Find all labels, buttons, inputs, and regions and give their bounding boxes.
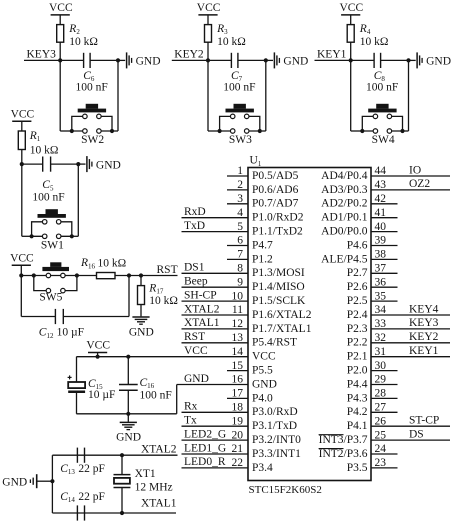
U1 pin 2 P0.6/AD6 stub bbox=[227, 189, 248, 191]
svg-text:P3.4: P3.4 bbox=[252, 462, 273, 474]
switch SW3 contact circles bbox=[230, 114, 235, 119]
svg-text:XTAL2: XTAL2 bbox=[141, 444, 177, 456]
svg-text:OZ2: OZ2 bbox=[409, 178, 430, 190]
junction node KEY3 bbox=[58, 58, 62, 62]
svg-text:P1.4/MISO: P1.4/MISO bbox=[252, 281, 305, 293]
junction C16 top bbox=[126, 355, 130, 359]
switch SW1 contact circles bbox=[42, 220, 47, 225]
svg-text:P1.1/TxD2: P1.1/TxD2 bbox=[252, 226, 303, 238]
svg-text:44: 44 bbox=[375, 165, 387, 177]
U1 pin 21 P3.3/INT1 wire/net LED1_G bbox=[182, 453, 249, 455]
svg-text:P1.3/MOSI: P1.3/MOSI bbox=[252, 267, 305, 279]
svg-text:SW1: SW1 bbox=[41, 240, 64, 252]
switch SW5 right contact bracket bbox=[63, 276, 77, 291]
U1 pin 7 P1.2 stub bbox=[227, 258, 248, 260]
svg-text:DS: DS bbox=[409, 428, 424, 440]
svg-text:RxD: RxD bbox=[184, 206, 206, 218]
svg-text:SW5: SW5 bbox=[39, 292, 62, 304]
U1 pin 25 INT3/P3.7 wire/net DS bbox=[371, 439, 450, 441]
ground GND (KEY1) bbox=[409, 59, 416, 61]
svg-text:31: 31 bbox=[375, 346, 387, 358]
wire VCC to R4 bbox=[350, 15, 352, 25]
svg-text:27: 27 bbox=[375, 402, 387, 414]
svg-text:10 kΩ: 10 kΩ bbox=[98, 258, 127, 270]
wire bottom right of SW2 bbox=[114, 130, 118, 132]
svg-text:Rx: Rx bbox=[184, 401, 198, 413]
wire R4 to node KEY1 bbox=[350, 42, 352, 60]
U1 pin 31 P2.1 wire/net KEY1 bbox=[371, 356, 450, 358]
wire VCC to RST rail bbox=[20, 265, 22, 275]
svg-text:XTAL1: XTAL1 bbox=[141, 497, 177, 509]
svg-text:VCC: VCC bbox=[197, 2, 221, 14]
wire XTAL2 net bbox=[52, 454, 177, 456]
svg-text:KEY2: KEY2 bbox=[174, 49, 204, 61]
svg-text:15: 15 bbox=[232, 360, 244, 372]
capacitor C16 bbox=[127, 357, 129, 385]
svg-text:P2.2: P2.2 bbox=[347, 337, 368, 349]
switch SW3 left contact bracket bbox=[220, 116, 233, 131]
wire KEY3 horizontal bbox=[24, 59, 84, 61]
svg-text:26: 26 bbox=[375, 415, 387, 427]
U1 pin 30 P2.0 stub bbox=[371, 370, 398, 372]
svg-text:100 nF: 100 nF bbox=[140, 390, 172, 402]
svg-text:P0.6/AD6: P0.6/AD6 bbox=[252, 184, 299, 196]
svg-text:SW2: SW2 bbox=[81, 134, 104, 146]
wire bottom left of SW1 bbox=[22, 235, 32, 237]
resistor R17 bbox=[138, 286, 145, 305]
U1 pin 32 P2.2 wire/net KEY2 bbox=[371, 342, 450, 344]
U1 pin 22 P3.4 wire/net LED0_R bbox=[182, 467, 249, 469]
svg-text:23: 23 bbox=[375, 457, 387, 469]
svg-text:21: 21 bbox=[232, 443, 244, 455]
U1 pin 27 P4.2 stub bbox=[371, 411, 398, 413]
switch SW1 button cap bbox=[38, 214, 66, 218]
svg-text:33: 33 bbox=[375, 318, 387, 330]
switch SW1 terminal junction dots bbox=[30, 234, 34, 238]
U1 pin 10 P1.5/SCLK wire/net SH-CP bbox=[182, 300, 249, 302]
ground GND (crystal) bbox=[37, 480, 53, 482]
svg-text:36: 36 bbox=[375, 276, 387, 288]
wire ground rail to IC pin 16 bbox=[176, 385, 178, 414]
svg-text:P2.0: P2.0 bbox=[347, 365, 368, 377]
svg-text:P3.0/RxD: P3.0/RxD bbox=[252, 406, 298, 418]
svg-text:KEY3: KEY3 bbox=[27, 49, 57, 61]
switch SW5 left contact bracket bbox=[34, 276, 49, 291]
svg-text:6: 6 bbox=[237, 235, 243, 247]
wire KEY1 horizontal bbox=[315, 59, 375, 61]
svg-text:GND: GND bbox=[96, 159, 121, 171]
svg-text:GND: GND bbox=[184, 373, 209, 385]
svg-text:P2.7: P2.7 bbox=[347, 267, 368, 279]
svg-text:P2.1: P2.1 bbox=[347, 351, 368, 363]
ground GND (R17) bbox=[140, 305, 142, 317]
switch SW4 contact circles bbox=[373, 114, 378, 119]
capacitor C15 polarized bbox=[76, 357, 78, 382]
svg-text:14: 14 bbox=[232, 346, 244, 358]
svg-text:3: 3 bbox=[237, 193, 243, 205]
svg-text:VCC: VCC bbox=[49, 2, 73, 14]
capacitor C6 bbox=[83, 53, 85, 68]
svg-text:RST: RST bbox=[157, 264, 178, 276]
svg-text:GND: GND bbox=[2, 476, 27, 488]
svg-text:AD4/P0.4: AD4/P0.4 bbox=[321, 170, 368, 182]
resistor R16 bbox=[97, 273, 116, 279]
svg-text:10 kΩ: 10 kΩ bbox=[217, 36, 246, 48]
wire RST rail bbox=[21, 275, 96, 277]
wire C6 to GND bbox=[90, 59, 118, 61]
wire VCC stem bbox=[97, 353, 99, 357]
wire left vertical XTAL bbox=[51, 455, 53, 513]
svg-text:17: 17 bbox=[232, 388, 244, 400]
junction node KEY2 bbox=[206, 58, 210, 62]
junction VCC bbox=[96, 355, 100, 359]
svg-text:41: 41 bbox=[375, 207, 387, 219]
U1 pin 41 AD1/P0.1 stub bbox=[371, 217, 398, 219]
svg-text:GND: GND bbox=[252, 378, 277, 390]
wire node to C5 bbox=[22, 163, 43, 165]
capacitor C7 bbox=[230, 53, 232, 68]
ground GND (KEY3) bbox=[118, 59, 125, 61]
svg-text:100 nF: 100 nF bbox=[223, 81, 255, 93]
svg-text:P1.0/RxD2: P1.0/RxD2 bbox=[252, 212, 304, 224]
wire left vertical to SW2 bbox=[59, 60, 61, 131]
svg-text:9: 9 bbox=[237, 276, 243, 288]
svg-text:10 kΩ: 10 kΩ bbox=[30, 145, 59, 157]
U1 pin 1 P0.5/AD5 stub bbox=[227, 175, 248, 177]
svg-text:22 pF: 22 pF bbox=[78, 491, 105, 503]
svg-text:AD0/P0.0: AD0/P0.0 bbox=[321, 226, 368, 238]
svg-text:SW4: SW4 bbox=[372, 134, 395, 146]
ground GND (SW1 node) bbox=[78, 163, 85, 165]
wire VCC to R2 bbox=[59, 15, 61, 25]
svg-text:TxD: TxD bbox=[184, 220, 205, 232]
svg-text:P4.4: P4.4 bbox=[347, 378, 368, 390]
switch SW4 left contact bracket bbox=[362, 116, 375, 131]
svg-text:22: 22 bbox=[232, 457, 244, 469]
svg-text:P4.6: P4.6 bbox=[347, 239, 368, 251]
svg-text:7: 7 bbox=[237, 249, 243, 261]
wire R17 top bbox=[140, 276, 142, 286]
U1 pin 29 P4.4 stub bbox=[371, 384, 398, 386]
wire bottom right of SW4 bbox=[404, 130, 408, 132]
svg-text:39: 39 bbox=[375, 235, 387, 247]
svg-text:P4.3: P4.3 bbox=[347, 392, 368, 404]
U1 pin 33 P2.3 wire/net KEY3 bbox=[371, 328, 450, 330]
svg-text:IO: IO bbox=[409, 164, 421, 176]
wire C7 to GND bbox=[238, 59, 266, 61]
svg-text:P4.0: P4.0 bbox=[252, 392, 273, 404]
U1 pin 12 P1.7/XTAL1 wire/net XTAL1 bbox=[182, 328, 249, 330]
switch SW2 left contact bracket bbox=[72, 116, 85, 131]
U1 pin 36 P2.6 stub bbox=[371, 286, 398, 288]
svg-text:10 kΩ: 10 kΩ bbox=[360, 36, 389, 48]
wire bottom left of SW2 bbox=[60, 130, 72, 132]
junction node KEY1 bbox=[349, 58, 353, 62]
U1 pin 9 P1.4/MISO wire/net Beep bbox=[182, 286, 249, 288]
svg-text:34: 34 bbox=[375, 304, 387, 316]
wire C12 left bbox=[21, 316, 55, 318]
svg-text:KEY4: KEY4 bbox=[409, 303, 439, 315]
svg-text:XT1: XT1 bbox=[135, 468, 156, 480]
svg-text:GND: GND bbox=[283, 56, 308, 68]
capacitor C14 bbox=[76, 505, 78, 520]
U1 pin 26 P4.1 wire/net ST-CP bbox=[371, 425, 450, 427]
U1 pin 4 P1.0/RxD2 wire/net RxD bbox=[182, 217, 249, 219]
wire bottom left of SW3 bbox=[208, 130, 220, 132]
svg-text:12 MHz: 12 MHz bbox=[135, 482, 173, 494]
svg-text:GND: GND bbox=[426, 56, 451, 68]
svg-text:29: 29 bbox=[375, 374, 387, 386]
wire right vertical to SW3 bbox=[265, 60, 267, 131]
wire right vertical to SW2 bbox=[117, 60, 119, 131]
junction R17 top bbox=[139, 273, 143, 277]
svg-text:P2.6: P2.6 bbox=[347, 281, 368, 293]
wire C5 to GND bbox=[51, 163, 79, 165]
svg-text:XTAL1: XTAL1 bbox=[184, 317, 220, 329]
wire R1 to node bbox=[21, 150, 23, 165]
svg-text:P1.7/XTAL1: P1.7/XTAL1 bbox=[252, 323, 312, 335]
wire right vertical to SW1 bbox=[77, 164, 79, 236]
capacitor C5 bbox=[42, 157, 44, 172]
U1 pin 16 GND wire/net GND bbox=[177, 384, 248, 386]
svg-text:AD3/P0.3: AD3/P0.3 bbox=[321, 184, 368, 196]
junction XT1 bottom bbox=[120, 511, 124, 515]
svg-text:8: 8 bbox=[237, 263, 243, 275]
svg-text:GND: GND bbox=[136, 56, 161, 68]
switch SW2 contact circles bbox=[83, 114, 88, 119]
U1 pin 38 ALE/P4.5 stub bbox=[371, 258, 398, 260]
wire left vertical to SW3 bbox=[207, 60, 209, 131]
svg-text:XTAL2: XTAL2 bbox=[184, 303, 220, 315]
resistor R4 bbox=[347, 25, 354, 43]
svg-text:35: 35 bbox=[375, 290, 387, 302]
svg-text:GND: GND bbox=[129, 326, 154, 338]
svg-text:AD1/P0.1: AD1/P0.1 bbox=[321, 212, 368, 224]
U1 pin 24 INT2/P3.6 stub bbox=[371, 453, 398, 455]
U1 pin 40 AD0/P0.0 stub bbox=[371, 231, 398, 233]
svg-text:P4.2: P4.2 bbox=[347, 406, 368, 418]
svg-text:100 nF: 100 nF bbox=[32, 192, 64, 204]
svg-text:16: 16 bbox=[232, 374, 244, 386]
svg-text:5: 5 bbox=[237, 221, 243, 233]
switch SW1 left contact bracket bbox=[32, 222, 45, 237]
wire ground rail bbox=[76, 413, 176, 415]
U1 pin 13 P5.4/RST wire/net RST bbox=[182, 342, 249, 344]
svg-text:1: 1 bbox=[237, 165, 243, 177]
U1 pin 35 P2.5 stub bbox=[371, 300, 398, 302]
switch SW5 terminal junction dots bbox=[32, 273, 36, 277]
U1 pin 44 AD4/P0.4 wire/net IO bbox=[371, 175, 450, 177]
ground GND (C15/C16) bbox=[127, 414, 129, 422]
junction bbox=[406, 58, 410, 62]
svg-text:P1.6/XTAL2: P1.6/XTAL2 bbox=[252, 309, 312, 321]
svg-text:P3.1/TxD: P3.1/TxD bbox=[252, 420, 297, 432]
svg-text:28: 28 bbox=[375, 388, 387, 400]
svg-text:INT3/P3.7: INT3/P3.7 bbox=[319, 434, 368, 446]
U1 pin 6 P4.7 stub bbox=[227, 245, 248, 247]
junction crystal GND bbox=[50, 479, 54, 483]
svg-text:32: 32 bbox=[375, 332, 387, 344]
svg-text:VCC: VCC bbox=[252, 351, 276, 363]
svg-text:VCC: VCC bbox=[10, 252, 34, 264]
svg-text:P5.4/RST: P5.4/RST bbox=[252, 337, 297, 349]
svg-text:10 µF: 10 µF bbox=[88, 389, 115, 401]
switch SW4 right contact bracket bbox=[389, 116, 402, 131]
switch SW2 terminal junction dots bbox=[70, 129, 74, 133]
svg-text:P0.7/AD7: P0.7/AD7 bbox=[252, 198, 299, 210]
U1 pin 23 P3.5 stub bbox=[371, 467, 398, 469]
svg-text:13: 13 bbox=[232, 332, 244, 344]
svg-text:37: 37 bbox=[375, 263, 387, 275]
U1 pin 8 P1.3/MOSI wire/net DS1 bbox=[182, 272, 249, 274]
crystal XT1 bbox=[121, 455, 123, 474]
svg-text:19: 19 bbox=[232, 415, 244, 427]
wire left vertical to SW4 bbox=[350, 60, 352, 131]
svg-text:10 µF: 10 µF bbox=[57, 327, 84, 339]
junction VCC / C12 bbox=[19, 273, 23, 277]
capacitor C8 bbox=[373, 53, 375, 68]
junction C12 leg bbox=[127, 273, 131, 277]
switch SW2 button cap bbox=[78, 109, 106, 113]
resistor R1 bbox=[18, 131, 25, 150]
svg-text:VCC: VCC bbox=[86, 340, 110, 352]
U1 pin 3 P0.7/AD7 stub bbox=[227, 203, 248, 205]
svg-text:42: 42 bbox=[375, 193, 387, 205]
svg-text:100 nF: 100 nF bbox=[366, 81, 398, 93]
wire C12 right bbox=[63, 316, 129, 318]
U1 pin 42 AD2/P0.2 stub bbox=[371, 203, 398, 205]
switch SW5 contact circles bbox=[46, 273, 51, 278]
wire bottom right of SW3 bbox=[262, 130, 266, 132]
wire C8 to GND bbox=[381, 59, 409, 61]
svg-text:12: 12 bbox=[232, 318, 244, 330]
wire right vertical to SW4 bbox=[408, 60, 410, 131]
junction XT1 top bbox=[120, 453, 124, 457]
svg-text:ST-CP: ST-CP bbox=[409, 415, 439, 427]
svg-text:P5.5: P5.5 bbox=[252, 365, 273, 377]
wire bottom right of SW1 bbox=[73, 235, 78, 237]
svg-text:KEY3: KEY3 bbox=[409, 317, 439, 329]
wire R16 to RST bbox=[115, 275, 178, 277]
svg-text:P3.3/INT1: P3.3/INT1 bbox=[252, 448, 301, 460]
svg-text:11: 11 bbox=[232, 304, 243, 316]
svg-text:Tx: Tx bbox=[184, 415, 197, 427]
svg-text:VCC: VCC bbox=[11, 109, 35, 121]
ground GND (KEY2) bbox=[266, 59, 273, 61]
svg-text:LED2_G: LED2_G bbox=[184, 428, 226, 440]
junction bbox=[264, 58, 268, 62]
U1 pin 39 P4.6 stub bbox=[371, 245, 398, 247]
svg-text:2: 2 bbox=[237, 179, 243, 191]
svg-text:VCC: VCC bbox=[184, 345, 208, 357]
svg-text:25: 25 bbox=[375, 429, 387, 441]
wire VCC to R1 bbox=[21, 121, 23, 131]
capacitor C12 bbox=[54, 309, 56, 324]
U1 pin 15 P5.5 stub bbox=[227, 370, 248, 372]
wire VCC to R3 bbox=[207, 15, 209, 25]
U1 pin 37 P2.7 stub bbox=[371, 272, 398, 274]
svg-text:P2.4: P2.4 bbox=[347, 309, 368, 321]
svg-text:VCC: VCC bbox=[339, 2, 363, 14]
svg-text:KEY1: KEY1 bbox=[409, 345, 439, 357]
U1 pin 11 P1.6/XTAL2 wire/net XTAL2 bbox=[182, 314, 249, 316]
svg-text:P3.5: P3.5 bbox=[347, 462, 368, 474]
switch SW1 right contact bracket bbox=[59, 222, 72, 237]
capacitor C13 bbox=[76, 448, 78, 463]
IC U1 STC15F2K60S2 body bbox=[248, 168, 371, 481]
svg-text:SW3: SW3 bbox=[229, 134, 252, 146]
wire XTAL1 net bbox=[52, 512, 176, 514]
svg-text:40: 40 bbox=[375, 221, 387, 233]
svg-text:10 kΩ: 10 kΩ bbox=[69, 36, 98, 48]
svg-text:P2.5: P2.5 bbox=[347, 295, 368, 307]
resistor R2 bbox=[57, 25, 64, 43]
svg-text:KEY2: KEY2 bbox=[409, 331, 439, 343]
svg-text:10: 10 bbox=[232, 290, 244, 302]
svg-text:P3.2/INT0: P3.2/INT0 bbox=[252, 434, 301, 446]
svg-text:43: 43 bbox=[375, 179, 387, 191]
wire bottom left of SW4 bbox=[351, 130, 363, 132]
svg-text:24: 24 bbox=[375, 443, 387, 455]
svg-text:30: 30 bbox=[375, 360, 387, 372]
switch SW2 right contact bracket bbox=[99, 116, 112, 131]
svg-text:100 nF: 100 nF bbox=[76, 81, 108, 93]
U1 pin 19 P3.1/TxD wire/net Tx bbox=[182, 425, 249, 427]
svg-text:10 kΩ: 10 kΩ bbox=[149, 295, 178, 307]
svg-text:LED1_G: LED1_G bbox=[184, 442, 226, 454]
resistor R3 bbox=[205, 25, 212, 43]
svg-text:ALE/P4.5: ALE/P4.5 bbox=[321, 253, 368, 265]
wire VCC rail to IC pin 14 bbox=[76, 356, 248, 358]
svg-text:INT2/P3.6: INT2/P3.6 bbox=[319, 448, 368, 460]
svg-text:RST: RST bbox=[184, 331, 205, 343]
junction node R1/C5/SW1 bbox=[20, 162, 24, 166]
junction bbox=[76, 162, 80, 166]
svg-text:18: 18 bbox=[232, 402, 244, 414]
svg-text:P2.3: P2.3 bbox=[347, 323, 368, 335]
svg-text:KEY1: KEY1 bbox=[317, 49, 347, 61]
svg-text:P0.5/AD5: P0.5/AD5 bbox=[252, 170, 299, 182]
svg-text:SH-CP: SH-CP bbox=[184, 289, 217, 301]
svg-text:LED0_R: LED0_R bbox=[184, 456, 226, 468]
switch SW4 terminal junction dots bbox=[360, 129, 364, 133]
svg-text:P4.7: P4.7 bbox=[252, 239, 273, 251]
switch SW5 button cap bbox=[42, 267, 69, 271]
svg-text:20: 20 bbox=[232, 429, 244, 441]
junction ground rail bbox=[126, 412, 130, 416]
svg-text:P1.5/SCLK: P1.5/SCLK bbox=[252, 295, 306, 307]
U1 pin 43 AD3/P0.3 wire/net OZ2 bbox=[371, 189, 450, 191]
U1 pin 17 P4.0 stub bbox=[227, 397, 248, 399]
U1 pin 20 P3.2/INT0 wire/net LED2_G bbox=[182, 439, 249, 441]
svg-text:Beep: Beep bbox=[184, 276, 208, 288]
switch SW3 terminal junction dots bbox=[218, 129, 222, 133]
wire C12 right leg bbox=[128, 276, 130, 317]
svg-text:STC15F2K60S2: STC15F2K60S2 bbox=[249, 484, 322, 496]
wire R2 to node KEY3 bbox=[59, 42, 61, 60]
svg-text:DS1: DS1 bbox=[184, 262, 205, 274]
svg-text:22 pF: 22 pF bbox=[78, 463, 105, 475]
wire C12 left leg bbox=[20, 276, 22, 317]
junction bbox=[116, 58, 120, 62]
svg-text:4: 4 bbox=[237, 207, 243, 219]
wire R3 to node KEY2 bbox=[207, 42, 209, 60]
svg-text:P1.2: P1.2 bbox=[252, 253, 273, 265]
svg-text:GND: GND bbox=[116, 432, 141, 444]
wire left vertical to SW1 bbox=[21, 164, 23, 236]
U1 pin 18 P3.0/RxD wire/net Rx bbox=[182, 411, 249, 413]
U1 pin 5 P1.1/TxD2 wire/net TxD bbox=[182, 231, 249, 233]
